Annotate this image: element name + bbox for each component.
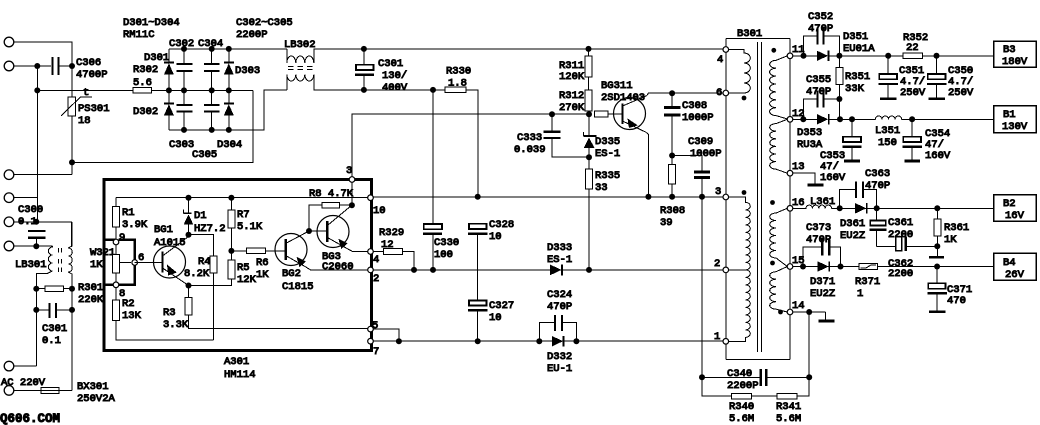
svg-text:R301: R301 xyxy=(78,282,103,294)
wire to C309 xyxy=(672,156,702,172)
pin14 cold ground stub xyxy=(825,312,827,320)
svg-text:C324: C324 xyxy=(547,289,572,301)
resistor R5 xyxy=(230,251,232,260)
svg-text:9: 9 xyxy=(119,232,125,244)
node dot LB301 left top xyxy=(33,243,39,249)
svg-text:1.8: 1.8 xyxy=(448,78,467,90)
svg-text:2200: 2200 xyxy=(888,268,913,280)
svg-text:220K: 220K xyxy=(78,294,104,306)
svg-text:C363: C363 xyxy=(865,168,890,180)
svg-text:0.1: 0.1 xyxy=(18,216,37,228)
wire terminal1 to C306 right node xyxy=(14,42,73,63)
svg-text:250V: 250V xyxy=(900,87,926,99)
svg-text:ES-1: ES-1 xyxy=(547,254,572,266)
cold ground stub R361 xyxy=(936,246,938,256)
node dot R351 bottom xyxy=(836,96,842,102)
svg-text:13K: 13K xyxy=(122,310,142,322)
AC input terminal 1 xyxy=(4,37,14,47)
capacitor C363 xyxy=(840,189,855,208)
svg-text:R340: R340 xyxy=(729,401,754,413)
diode D304 xyxy=(228,90,230,103)
AC line terminal 8 xyxy=(4,386,14,396)
node dot C300 top xyxy=(33,219,39,225)
svg-text:D353: D353 xyxy=(797,127,822,139)
node dot C308 bottom xyxy=(669,153,675,159)
capacitor C353 xyxy=(851,119,853,137)
B301 secondary winding pin16-pin15 xyxy=(770,208,788,266)
svg-text:2: 2 xyxy=(373,273,379,285)
svg-text:3: 3 xyxy=(346,165,352,177)
svg-text:1: 1 xyxy=(857,288,863,300)
svg-text:W321: W321 xyxy=(90,247,115,259)
node dot R302 branch xyxy=(34,87,40,93)
svg-text:1000P: 1000P xyxy=(682,112,714,124)
capacitor C371 xyxy=(936,267,938,284)
svg-text:EU-1: EU-1 xyxy=(547,363,572,375)
svg-text:D304: D304 xyxy=(217,139,242,151)
svg-text:C301: C301 xyxy=(42,323,67,335)
resistor R2 xyxy=(115,288,117,300)
svg-text:130V: 130V xyxy=(1002,121,1028,133)
AC input terminal 6 xyxy=(4,241,14,251)
svg-text:HM114: HM114 xyxy=(224,369,256,381)
svg-text:RM11C: RM11C xyxy=(123,29,155,41)
svg-text:BG311: BG311 xyxy=(601,80,633,92)
svg-text:250V2A: 250V2A xyxy=(77,393,116,405)
svg-text:33K: 33K xyxy=(845,83,865,95)
svg-text:2SD1403: 2SD1403 xyxy=(601,92,645,104)
node dot base node xyxy=(586,111,592,117)
svg-text:5.6: 5.6 xyxy=(133,77,152,89)
polarity dot secondary 14 xyxy=(778,310,783,315)
resistor R302 xyxy=(133,88,152,94)
svg-text:26V: 26V xyxy=(1005,269,1025,281)
internal rail y197 xyxy=(116,197,370,199)
inductor L351 xyxy=(875,116,901,119)
svg-text:C328: C328 xyxy=(489,219,514,231)
svg-text:12K: 12K xyxy=(237,274,257,286)
resistor R311 xyxy=(586,46,592,52)
svg-text:7: 7 xyxy=(373,346,379,358)
diode D302 xyxy=(168,90,170,103)
svg-text:D302: D302 xyxy=(133,106,158,118)
B301 primary winding pin3-pin2-pin1 xyxy=(726,197,751,270)
svg-text:D351: D351 xyxy=(843,31,868,43)
wire top rail to B301 pin4 xyxy=(364,48,723,50)
transformer core xyxy=(757,42,759,352)
wire terminal2 to C306 left xyxy=(14,65,52,67)
svg-text:D371: D371 xyxy=(810,276,835,288)
node dot R361 bottom xyxy=(934,243,940,249)
AC input terminal 5 xyxy=(4,217,14,227)
node dot C361 xyxy=(874,205,880,211)
svg-text:R329: R329 xyxy=(379,227,404,239)
node dot D351 cathode xyxy=(836,53,842,59)
svg-text:D332: D332 xyxy=(547,351,572,363)
resistor R312 xyxy=(588,77,590,90)
svg-text:270K: 270K xyxy=(559,102,585,114)
zener D1 xyxy=(188,235,190,237)
node dot C306 left xyxy=(34,63,40,69)
svg-text:120K: 120K xyxy=(559,71,585,83)
svg-text:R3: R3 xyxy=(163,307,176,319)
capacitor C324 xyxy=(536,338,542,344)
svg-text:C327: C327 xyxy=(489,300,514,312)
wire y114 from pin3 riser to BG311 base xyxy=(352,114,552,179)
capacitor C351 xyxy=(887,56,889,74)
svg-text:0.1: 0.1 xyxy=(42,335,61,347)
svg-text:D333: D333 xyxy=(547,242,572,254)
diode D303 xyxy=(228,49,230,62)
polarity dot secondary 11 xyxy=(771,48,776,53)
svg-text:100: 100 xyxy=(434,249,453,261)
wire terminal3 xyxy=(14,174,73,176)
svg-text:2200P: 2200P xyxy=(727,380,759,392)
svg-text:R330: R330 xyxy=(446,66,471,78)
svg-text:R8 4.7K: R8 4.7K xyxy=(309,188,354,200)
svg-text:250V: 250V xyxy=(948,87,974,99)
capacitor C301 (0.1) xyxy=(33,307,39,313)
diode D351 xyxy=(817,51,828,61)
svg-text:EU01A: EU01A xyxy=(843,43,875,55)
svg-text:16V: 16V xyxy=(1005,210,1025,222)
svg-text:13: 13 xyxy=(792,161,805,173)
svg-text:R371: R371 xyxy=(855,276,880,288)
wire D1 node to R4 top xyxy=(189,235,214,256)
svg-text:B4: B4 xyxy=(1003,257,1016,269)
svg-text:R6: R6 xyxy=(256,257,269,269)
B301 secondary winding pin11-pin12 xyxy=(770,56,788,119)
capacitor C330 xyxy=(424,224,442,229)
output box B4 xyxy=(994,253,1037,280)
capacitor C340 xyxy=(699,374,705,380)
svg-text:470P: 470P xyxy=(806,86,831,98)
svg-text:C340: C340 xyxy=(727,368,752,380)
svg-text:0.039: 0.039 xyxy=(514,144,546,156)
polarity dot primary upper xyxy=(742,96,747,101)
svg-text:R361: R361 xyxy=(944,222,969,234)
node dots bridge left column xyxy=(166,87,172,93)
node dot PS301 bottom / AC node xyxy=(69,159,75,165)
fusible resistor R371 xyxy=(859,264,877,270)
wire segments down to C301 xyxy=(35,289,37,366)
svg-text:C355: C355 xyxy=(806,74,831,86)
resistor R341 xyxy=(777,393,797,399)
svg-text:D301: D301 xyxy=(144,52,169,64)
svg-text:BG1: BG1 xyxy=(154,224,173,236)
svg-text:D361: D361 xyxy=(840,218,865,230)
node dot pin12 xyxy=(800,116,806,122)
node dot C354 xyxy=(909,116,915,122)
svg-text:PS301: PS301 xyxy=(78,103,110,115)
inductor L361 xyxy=(793,205,832,208)
svg-text:HZ7.2: HZ7.2 xyxy=(194,223,226,235)
svg-text:B1: B1 xyxy=(1003,109,1016,121)
diode D332 xyxy=(552,336,563,346)
node R7/R5/R6 xyxy=(228,248,234,254)
resistor R351 xyxy=(838,56,840,68)
svg-text:5.1K: 5.1K xyxy=(237,221,263,233)
resistor R352 xyxy=(903,53,923,59)
svg-text:B3: B3 xyxy=(1003,44,1016,56)
resistor R361 xyxy=(934,205,940,211)
capacitor C306 xyxy=(52,57,54,75)
AC input terminal 3 xyxy=(4,170,14,180)
node BG3 base xyxy=(306,228,312,234)
svg-text:L361: L361 xyxy=(810,196,835,208)
svg-text:39: 39 xyxy=(660,217,673,229)
wire C301 bottom rail xyxy=(364,89,478,91)
AC input terminal 2 xyxy=(4,61,14,71)
svg-text:470P: 470P xyxy=(806,234,831,246)
capacitor C327 xyxy=(469,300,486,305)
svg-text:160V: 160V xyxy=(820,172,846,184)
svg-text:R7: R7 xyxy=(237,209,250,221)
svg-text:D301~D304: D301~D304 xyxy=(123,17,180,29)
base resistor (unlabeled) xyxy=(595,111,609,117)
svg-text:400V: 400V xyxy=(382,82,408,94)
svg-text:t: t xyxy=(83,87,89,99)
bridge top rail xyxy=(169,48,287,50)
svg-text:R4: R4 xyxy=(198,256,211,268)
svg-text:470P: 470P xyxy=(808,23,833,35)
svg-text:14: 14 xyxy=(792,300,805,312)
svg-text:6: 6 xyxy=(716,87,722,99)
svg-text:R302: R302 xyxy=(133,64,158,76)
svg-text:C308: C308 xyxy=(682,100,707,112)
capacitor C354 xyxy=(911,119,913,137)
svg-text:LB301: LB301 xyxy=(15,259,47,271)
output box B2 xyxy=(994,195,1037,222)
snubber left riser x702 xyxy=(702,197,732,396)
svg-text:C373: C373 xyxy=(806,222,831,234)
svg-text:C303: C303 xyxy=(169,139,194,151)
pin13 cold ground stub xyxy=(793,173,815,184)
node dot C306 right xyxy=(69,63,75,69)
svg-text:2: 2 xyxy=(714,258,720,270)
bridge bottom rail xyxy=(169,90,287,130)
capacitor C352 xyxy=(804,36,817,56)
svg-text:1: 1 xyxy=(714,331,720,343)
svg-text:R351: R351 xyxy=(845,71,870,83)
svg-text:5.6M: 5.6M xyxy=(729,413,754,425)
svg-text:C306: C306 xyxy=(76,57,101,69)
B301 primary winding pin4-pin6 xyxy=(726,50,751,94)
svg-text:B2: B2 xyxy=(1003,198,1016,210)
resistor R340 xyxy=(732,393,752,399)
svg-text:130/: 130/ xyxy=(382,70,407,82)
wire to R302 xyxy=(37,89,133,91)
resistor R7 xyxy=(228,195,234,201)
svg-text:C302~C305: C302~C305 xyxy=(236,17,293,29)
hybrid IC A301 box xyxy=(104,180,372,351)
svg-text:4700P: 4700P xyxy=(76,69,108,81)
svg-text:LB302: LB302 xyxy=(284,39,316,51)
zener D335 xyxy=(588,114,590,135)
wire left vertical rail x37 from C306 down to C300 xyxy=(36,66,38,222)
svg-text:ES-1: ES-1 xyxy=(595,148,620,160)
svg-text:C1815: C1815 xyxy=(282,281,314,293)
polarity dot primary lower xyxy=(742,190,747,195)
svg-text:33: 33 xyxy=(595,182,608,194)
capacitor C305 xyxy=(211,90,213,105)
svg-text:D335: D335 xyxy=(595,136,620,148)
wire pin5 jog xyxy=(373,329,399,341)
svg-text:8.2K: 8.2K xyxy=(184,268,210,280)
svg-text:16: 16 xyxy=(792,197,805,209)
polarity dot secondary 16 xyxy=(770,200,775,205)
resistor R6 xyxy=(231,250,246,252)
wire pin2 run to B301 pin2 xyxy=(373,269,724,271)
svg-text:1K: 1K xyxy=(256,269,269,281)
wire AC node to bridge mid rail xyxy=(72,90,253,162)
svg-text:470P: 470P xyxy=(865,180,890,192)
diode D301 xyxy=(168,49,170,62)
svg-text:R335: R335 xyxy=(595,170,620,182)
capacitor C373 xyxy=(803,247,821,266)
svg-text:C301: C301 xyxy=(378,58,403,70)
diode D361 xyxy=(855,203,866,213)
resistor R4 xyxy=(210,256,217,273)
capacitor C350 xyxy=(936,56,938,74)
node dot C363 left xyxy=(837,205,843,211)
svg-text:470: 470 xyxy=(947,295,966,307)
resistor R3 xyxy=(188,286,190,298)
svg-text:5.6M: 5.6M xyxy=(776,413,801,425)
pin14 node dot xyxy=(806,309,812,315)
node dot D371 cathode xyxy=(838,264,844,270)
node dot C355/R351 riser xyxy=(837,116,843,122)
wire terminal6 to LB301 xyxy=(14,245,53,247)
capacitor C303 xyxy=(183,90,185,105)
svg-text:C333: C333 xyxy=(517,132,542,144)
wire terminal5 to C300 top xyxy=(14,222,72,247)
fuse BX301 xyxy=(41,387,59,393)
svg-text:C309: C309 xyxy=(688,136,713,148)
diode D371 xyxy=(818,261,829,271)
svg-text:R5: R5 xyxy=(237,262,250,274)
snubber right riser x810 xyxy=(797,312,809,396)
svg-text:18: 18 xyxy=(78,115,91,127)
svg-text:470P: 470P xyxy=(547,301,572,313)
wire terminal4 xyxy=(14,197,38,199)
capacitor C333 xyxy=(549,111,555,117)
resistor R301 xyxy=(45,286,64,292)
svg-text:A1015: A1015 xyxy=(154,237,186,249)
B301 secondary winding pin15-pin14 xyxy=(770,267,788,313)
wire pin7 run to B301 pin1 xyxy=(373,340,724,342)
svg-text:1000P: 1000P xyxy=(690,148,722,160)
svg-text:4: 4 xyxy=(717,54,723,66)
svg-text:D1: D1 xyxy=(194,210,207,222)
emitter wire BG1 to R5 bottom xyxy=(186,283,192,289)
svg-text:D303: D303 xyxy=(235,65,260,77)
resistor R1 xyxy=(115,198,117,207)
bridge mid rail xyxy=(169,89,253,91)
diode D333 xyxy=(550,265,562,276)
output box B3 xyxy=(994,41,1037,67)
output box B1 xyxy=(994,106,1037,133)
capacitor C301 (130/400V) xyxy=(361,46,367,52)
AC line terminal 7 xyxy=(4,361,14,371)
node dot pin15 xyxy=(800,264,806,270)
svg-text:EU2Z: EU2Z xyxy=(810,288,835,300)
svg-text:R308: R308 xyxy=(660,205,685,217)
svg-text:BX301: BX301 xyxy=(77,381,109,393)
diode D353 xyxy=(817,114,828,124)
svg-text:10: 10 xyxy=(489,231,502,243)
svg-text:4: 4 xyxy=(373,254,379,266)
svg-text:180V: 180V xyxy=(1002,56,1028,68)
node dot C371 xyxy=(934,264,940,270)
svg-text:BG2: BG2 xyxy=(282,268,301,280)
svg-text:160V: 160V xyxy=(925,150,951,162)
capacitor C309 xyxy=(694,171,710,174)
node dot pin11 xyxy=(801,53,807,59)
svg-text:C352: C352 xyxy=(808,11,833,23)
resistor R335 xyxy=(588,157,590,169)
capacitor C330 top lead xyxy=(432,90,434,223)
node dot R352 right / C350 xyxy=(934,53,940,59)
svg-text:3.3K: 3.3K xyxy=(163,319,189,331)
thermistor PS301 xyxy=(71,66,73,97)
resistor R330 xyxy=(430,87,436,93)
node dot R352 left / C351 xyxy=(885,53,891,59)
node dot C353 xyxy=(849,116,855,122)
svg-text:C361: C361 xyxy=(888,217,913,229)
svg-text:R2: R2 xyxy=(122,298,135,310)
resistor R308 xyxy=(669,165,676,185)
capacitor C308 xyxy=(669,90,675,96)
svg-text:C330: C330 xyxy=(434,237,459,249)
svg-text:C2060: C2060 xyxy=(322,261,354,273)
svg-text:R1: R1 xyxy=(122,207,135,219)
svg-text:2200P: 2200P xyxy=(236,29,268,41)
svg-text:L351: L351 xyxy=(875,125,900,137)
svg-text:C305: C305 xyxy=(192,149,217,161)
svg-text:Q606.COM: Q606.COM xyxy=(0,412,60,425)
capacitor C362 xyxy=(877,245,896,247)
drive rail wire pin10 to B301 pin3 xyxy=(372,196,723,198)
svg-text:1K: 1K xyxy=(90,259,103,271)
node dot R301 left xyxy=(33,286,39,292)
node dot R301 right xyxy=(69,286,75,292)
B301 secondary winding pin12-pin13 xyxy=(770,119,788,173)
svg-text:3.9K: 3.9K xyxy=(122,219,148,231)
svg-text:R341: R341 xyxy=(776,401,801,413)
svg-text:3: 3 xyxy=(715,186,721,198)
svg-text:EU2Z: EU2Z xyxy=(840,230,865,242)
svg-text:A301: A301 xyxy=(224,356,249,368)
node dot D335 bottom xyxy=(586,154,592,160)
polarity dot secondary 15 xyxy=(770,261,775,266)
svg-text:C300: C300 xyxy=(18,204,43,216)
svg-text:10: 10 xyxy=(373,205,386,217)
capacitor C361 xyxy=(876,208,878,222)
svg-text:1K: 1K xyxy=(944,234,957,246)
svg-text:150: 150 xyxy=(878,137,897,149)
capacitor C355 xyxy=(803,99,816,119)
capacitor C328 xyxy=(469,224,486,229)
svg-text:22: 22 xyxy=(906,42,919,54)
AC input terminal 4 xyxy=(4,193,14,203)
svg-text:10: 10 xyxy=(489,312,502,324)
svg-text:R312: R312 xyxy=(559,90,584,102)
